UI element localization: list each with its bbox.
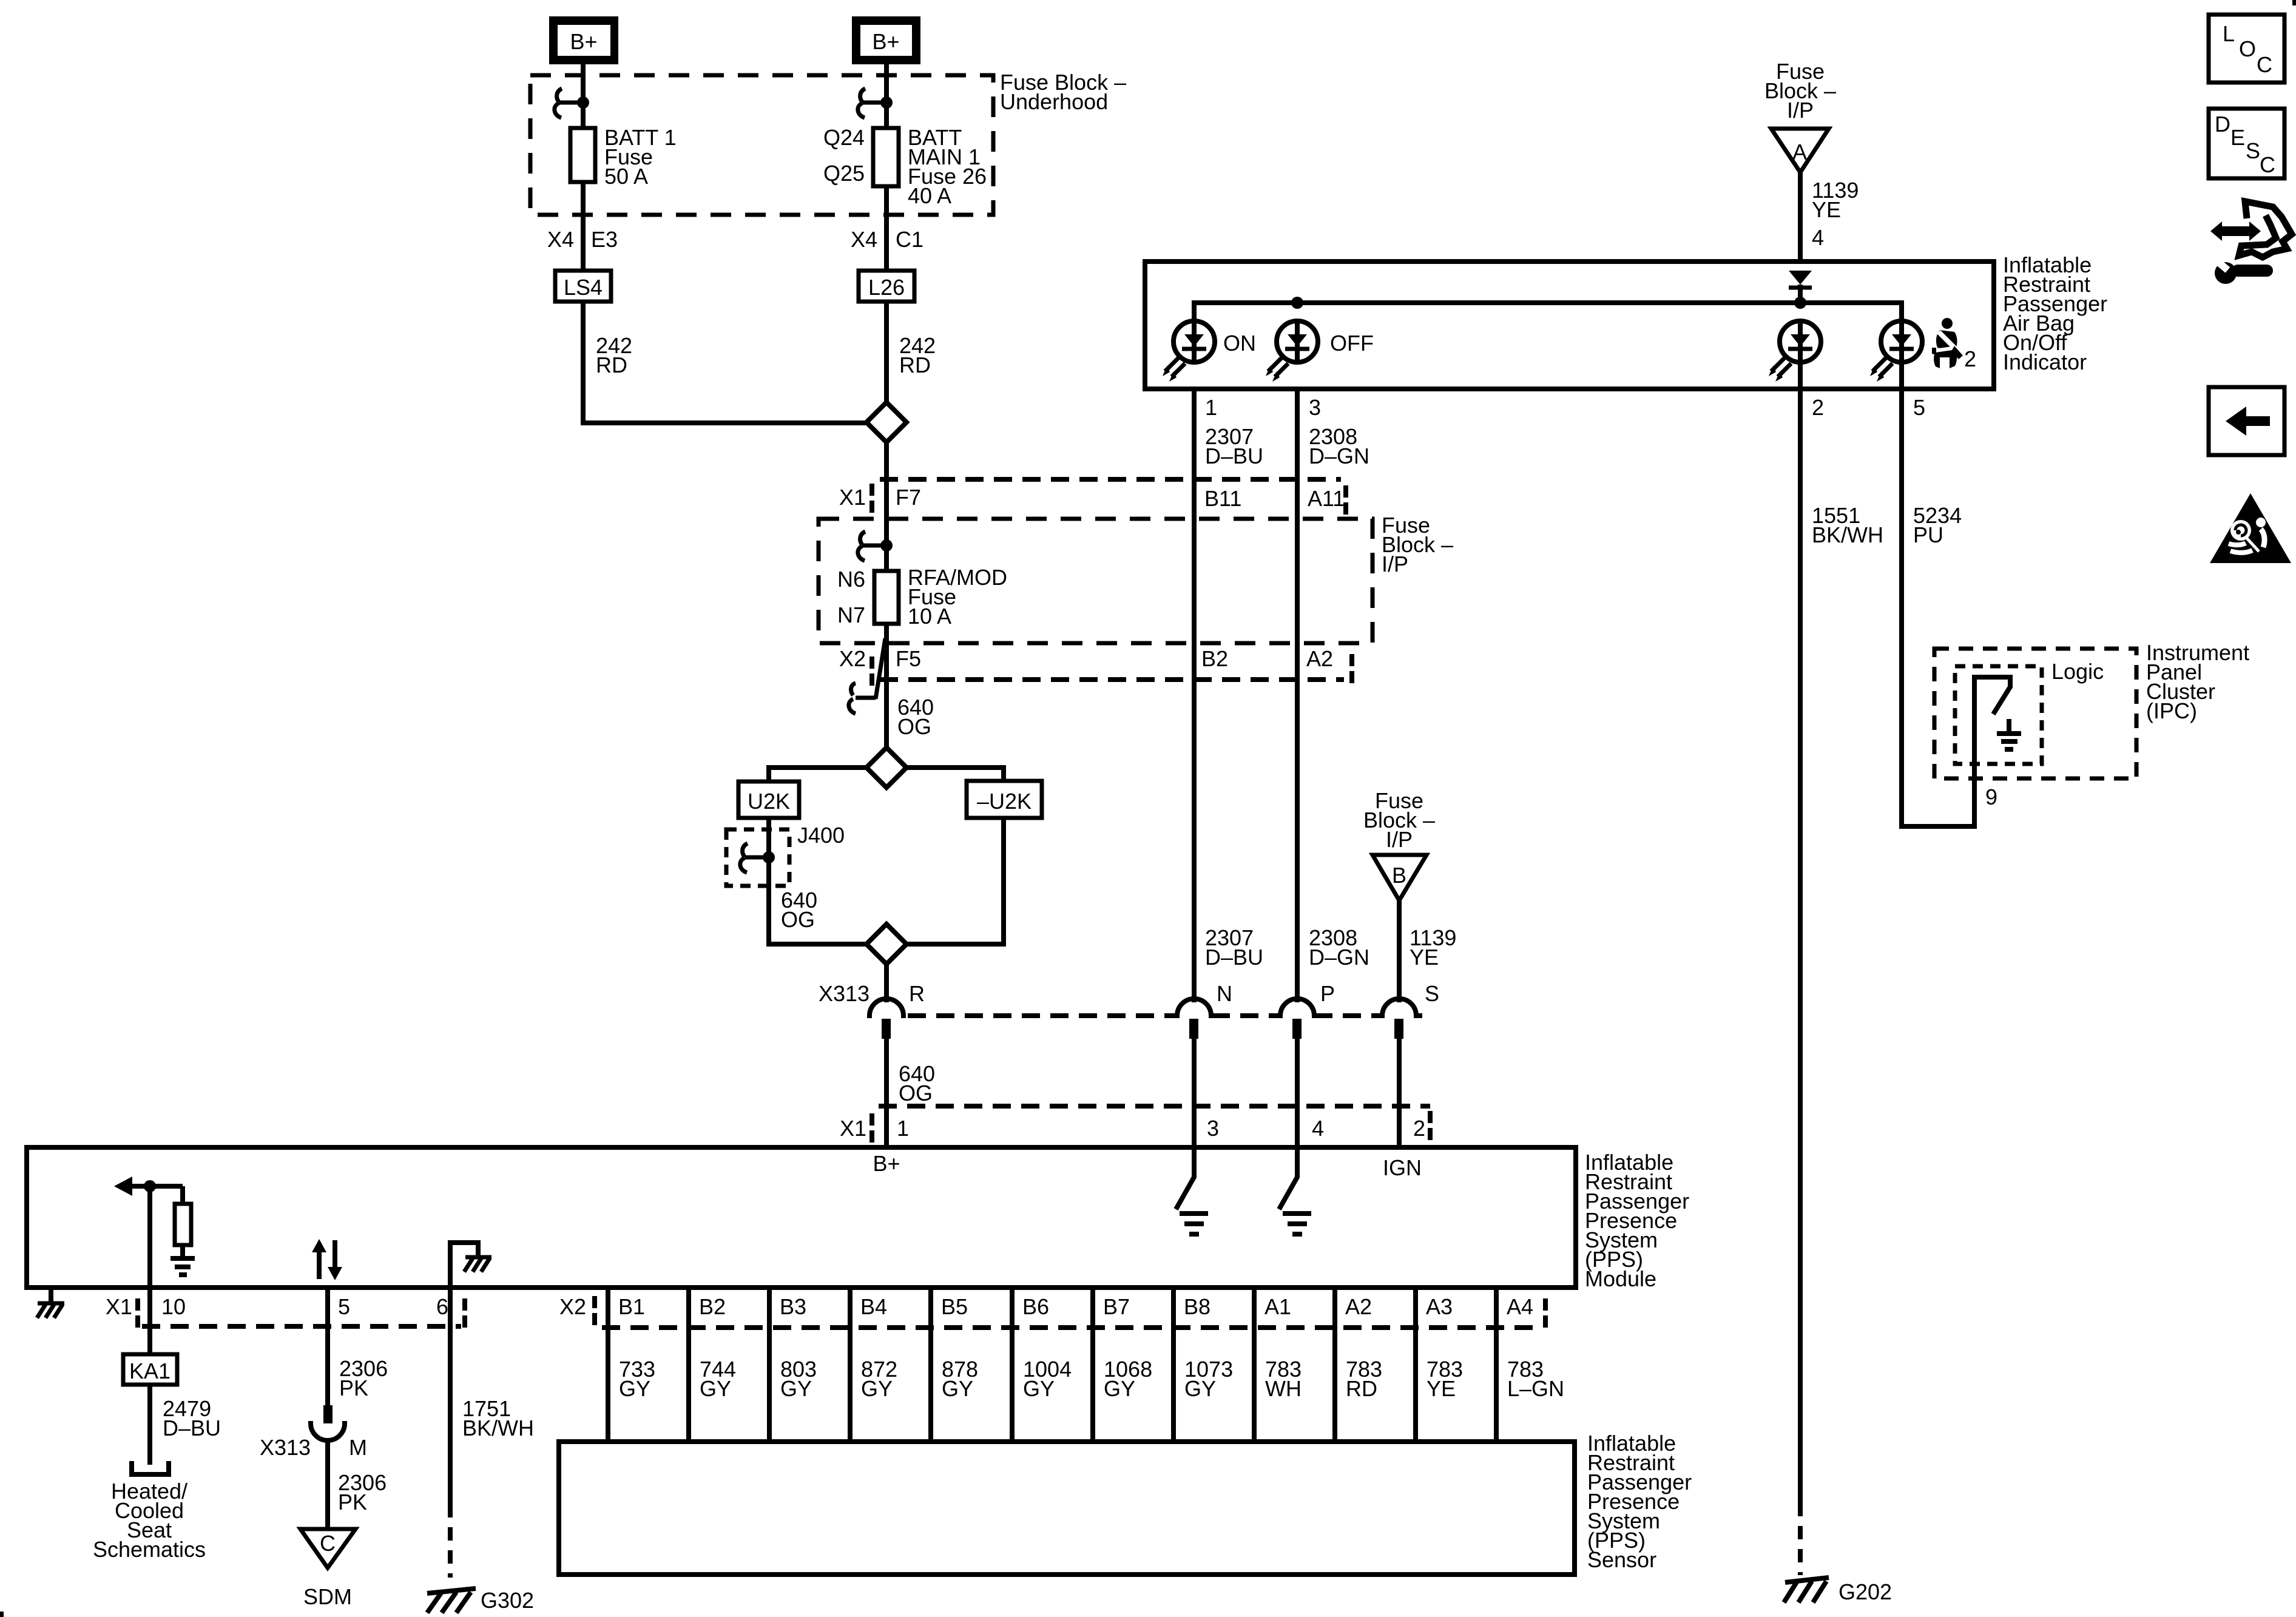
svg-text:N7: N7 [837, 603, 865, 627]
svg-text:YE: YE [1427, 1376, 1456, 1401]
wire 1551 BK/WH [1798, 363, 1803, 1503]
LED lamp 5 [1870, 321, 1922, 382]
svg-text:X2: X2 [839, 646, 866, 671]
module top connector row X1 [879, 1104, 1430, 1109]
svg-text:D: D [2215, 112, 2230, 137]
svg-text:WH: WH [1265, 1376, 1302, 1401]
module internal switch to ground (pin 4) [1279, 1147, 1297, 1209]
connector X313 R (female arc) [869, 999, 903, 1018]
module internal switch to ground (pin 3) [1176, 1147, 1194, 1209]
svg-text:4: 4 [1812, 225, 1824, 250]
off-page bracket [132, 1461, 169, 1474]
svg-text:10: 10 [161, 1294, 186, 1319]
svg-text:GY: GY [1023, 1376, 1055, 1401]
svg-text:B3: B3 [780, 1294, 806, 1319]
svg-text:L26: L26 [868, 275, 905, 300]
IPC logic dashed box [1955, 666, 2042, 764]
option box KA1 [123, 1354, 177, 1385]
svg-text:D–BU: D–BU [1205, 945, 1263, 970]
wire 1068 GY pin B7 [1090, 1290, 1095, 1439]
sidebar service icon double arrow [2210, 221, 2261, 241]
svg-text:F7: F7 [896, 485, 921, 510]
svg-text:R: R [909, 981, 925, 1006]
svg-text:LS4: LS4 [564, 275, 603, 300]
svg-text:GY: GY [619, 1376, 650, 1401]
svg-text:P: P [1320, 981, 1335, 1006]
wire 783 L&#8211;GN pin A4 [1494, 1290, 1499, 1439]
wire 2479 D-BU [147, 1385, 152, 1465]
splice diamond S1 [866, 402, 907, 442]
wire below fuse [884, 624, 889, 748]
LED lamp 2 [1769, 321, 1821, 382]
connector S arc [1382, 999, 1416, 1018]
IPC internal ground [2007, 719, 2011, 732]
LED OFF [1266, 321, 1318, 382]
module internal ground (resistor) [171, 1258, 195, 1275]
wire 1139 YE (B to module pin 2) [1397, 900, 1402, 1002]
page corner marks [2292, 0, 2296, 5]
module case ground stub [49, 1290, 53, 1302]
connector P arc [1280, 999, 1314, 1018]
svg-text:IGN: IGN [1383, 1155, 1422, 1180]
sidebar DESC box [2209, 109, 2284, 178]
connector row X313 dashed [908, 1013, 1177, 1018]
svg-text:GY: GY [1104, 1376, 1135, 1401]
fuse RFA/MOD 10A [874, 571, 899, 624]
fuse block I/P dashed box [819, 519, 1373, 643]
power feed B+ (left) [549, 16, 618, 64]
connector row X1/F7 + B11/A11 (Fuse Block I/P top) [880, 477, 1341, 482]
svg-text:GY: GY [1184, 1376, 1216, 1401]
splice pack LS4 [555, 271, 611, 302]
connector X313 M [323, 1405, 333, 1423]
svg-text:A3: A3 [1426, 1294, 1453, 1319]
wire 242 RD left [583, 302, 866, 423]
wire 783 WH pin A1 [1252, 1290, 1257, 1439]
sidebar service icon wrench [2215, 258, 2273, 284]
svg-text:U2K: U2K [748, 789, 790, 814]
svg-text:M: M [349, 1435, 367, 1460]
svg-text:S: S [2246, 138, 2260, 163]
wire 2307 D-BU (ON LED to module pin 3) [1192, 363, 1197, 1002]
seat belt icon [1932, 318, 1963, 368]
svg-text:B+: B+ [570, 29, 597, 54]
svg-text:B+: B+ [873, 1151, 900, 1176]
connector N arc [1177, 999, 1211, 1018]
svg-text:ON: ON [1223, 331, 1256, 356]
svg-text:OG: OG [899, 1081, 933, 1106]
svg-text:B7: B7 [1103, 1294, 1130, 1319]
svg-text:GY: GY [861, 1376, 893, 1401]
svg-text:G202: G202 [1838, 1579, 1892, 1604]
svg-text:1: 1 [1205, 395, 1217, 420]
svg-text:Underhood: Underhood [1000, 89, 1108, 114]
svg-text:2: 2 [1964, 346, 1976, 371]
wire 1004 GY pin B6 [1010, 1290, 1015, 1439]
wire B+ right drop [884, 64, 889, 271]
wire to X313 R [884, 964, 889, 1002]
SDM reference triangle C [300, 1529, 356, 1568]
svg-text:OFF: OFF [1330, 331, 1374, 356]
svg-text:Logic: Logic [2051, 659, 2104, 684]
fuse block underhood dashed box [530, 75, 993, 215]
svg-text:2: 2 [1413, 1116, 1425, 1141]
svg-text:GY: GY [700, 1376, 731, 1401]
module internal resistor [180, 1186, 185, 1204]
instrument panel cluster dashed box [1934, 649, 2136, 778]
svg-text:Q24: Q24 [823, 125, 865, 150]
svg-text:4: 4 [1312, 1116, 1324, 1141]
svg-text:N: N [1217, 981, 1232, 1006]
wire to -U2K [907, 768, 1004, 781]
svg-text:9: 9 [1985, 785, 1997, 809]
svg-text:A11: A11 [1308, 486, 1345, 511]
wire U2K to J400 [769, 818, 866, 944]
svg-text:SDM: SDM [303, 1584, 352, 1609]
svg-text:A: A [1792, 140, 1807, 164]
svg-text:5: 5 [1913, 395, 1925, 420]
fuse clip (BATT 1 top) [555, 89, 562, 118]
indicator internal bus [1194, 303, 1902, 321]
wire 2306 PK to SDM [325, 1440, 330, 1529]
svg-text:X4: X4 [547, 227, 574, 252]
svg-text:N6: N6 [837, 567, 865, 592]
sidebar back-arrow box [2209, 387, 2284, 455]
svg-text:B1: B1 [618, 1294, 645, 1319]
wire 640 OG below X313 [884, 1039, 889, 1145]
wire 1139 YE from A [1798, 172, 1803, 272]
option box -U2K [967, 781, 1042, 818]
svg-text:YE: YE [1812, 197, 1841, 222]
svg-text:2: 2 [1812, 395, 1824, 420]
svg-text:B: B [1392, 863, 1406, 888]
svg-text:Indicator: Indicator [2003, 349, 2087, 374]
svg-text:GY: GY [780, 1376, 812, 1401]
svg-text:B11: B11 [1204, 486, 1241, 511]
svg-text:I/P: I/P [1382, 552, 1408, 576]
ground G202 [1785, 1578, 1829, 1582]
svg-text:A2: A2 [1345, 1294, 1372, 1319]
wire 744 GY pin B2 [686, 1290, 691, 1439]
svg-text:5: 5 [338, 1294, 350, 1319]
ground G302 [427, 1588, 476, 1593]
fuse clip (RFA/MOD top) [858, 532, 865, 561]
svg-text:Q25: Q25 [823, 161, 865, 186]
splice J400 dashed box [726, 829, 789, 886]
wire 803 GY pin B3 [767, 1290, 772, 1439]
svg-text:–U2K: –U2K [977, 789, 1032, 814]
svg-text:X313: X313 [819, 981, 869, 1006]
splice diamond S2 [866, 748, 907, 788]
svg-text:C: C [320, 1531, 336, 1556]
PPS sensor box [559, 1442, 1575, 1575]
svg-text:6: 6 [436, 1294, 448, 1319]
svg-text:C: C [2260, 152, 2275, 177]
svg-text:X2: X2 [559, 1294, 586, 1319]
svg-text:C: C [2257, 52, 2272, 77]
svg-text:YE: YE [1410, 945, 1439, 970]
svg-text:A2: A2 [1306, 646, 1333, 671]
svg-text:F5: F5 [896, 646, 921, 671]
svg-text:KA1: KA1 [129, 1359, 171, 1383]
svg-text:D–BU: D–BU [163, 1416, 221, 1440]
module internal chassis ground hook (pin 6) [450, 1243, 478, 1288]
svg-text:I/P: I/P [1386, 827, 1413, 852]
svg-text:BK/WH: BK/WH [1812, 522, 1883, 547]
svg-text:D–GN: D–GN [1309, 945, 1369, 970]
fuse BATT 1 [570, 128, 595, 182]
wire 2306 PK (pin 5) [325, 1290, 330, 1406]
diode on pin4 line [1789, 271, 1812, 285]
wire KA1 drop (pin 10) [147, 1186, 152, 1354]
module internal: signal arrow out [114, 1176, 132, 1196]
sidebar service icon panel outline [2239, 201, 2292, 257]
svg-text:L: L [2223, 21, 2235, 46]
svg-text:RD: RD [596, 353, 627, 377]
svg-text:RD: RD [1346, 1376, 1377, 1401]
svg-text:40 A: 40 A [908, 183, 951, 208]
splice diamond S3 [866, 924, 907, 964]
svg-text:50 A: 50 A [604, 164, 648, 189]
wire 733 GY pin B1 [606, 1290, 610, 1439]
svg-text:C1: C1 [896, 227, 923, 252]
svg-text:X1: X1 [839, 485, 866, 510]
wire 5234 PU [1902, 363, 1974, 826]
svg-text:A4: A4 [1507, 1294, 1533, 1319]
wire 872 GY pin B4 [848, 1290, 853, 1439]
svg-text:D–BU: D–BU [1205, 444, 1263, 468]
wire -U2K down [907, 818, 1004, 944]
svg-text:Module: Module [1585, 1266, 1656, 1291]
connector mark X1 [869, 484, 874, 513]
wire 1751 BK/WH (pin 6) [448, 1290, 453, 1504]
svg-text:G302: G302 [481, 1588, 534, 1613]
sidebar LOC box [2209, 15, 2284, 83]
svg-text:10 A: 10 A [908, 604, 951, 629]
svg-text:B2: B2 [699, 1294, 726, 1319]
LED ON [1163, 321, 1215, 382]
wire 2308 D-GN (OFF LED to module pin 4) [1295, 363, 1300, 1002]
connector mark right of A11 [1343, 485, 1348, 515]
option box U2K [738, 781, 799, 818]
svg-text:OG: OG [897, 714, 931, 739]
svg-text:S: S [1425, 981, 1439, 1006]
svg-text:B8: B8 [1184, 1294, 1210, 1319]
svg-text:GY: GY [942, 1376, 973, 1401]
svg-text:I/P: I/P [1787, 98, 1814, 123]
svg-text:B2: B2 [1201, 646, 1228, 671]
svg-text:PU: PU [1913, 522, 1943, 547]
svg-text:A1: A1 [1264, 1294, 1291, 1319]
svg-text:D–GN: D–GN [1309, 444, 1369, 468]
IPC internal switch [1974, 677, 2010, 778]
svg-text:X313: X313 [260, 1435, 311, 1460]
wire B+ left drop [581, 64, 586, 271]
svg-text:X1: X1 [840, 1116, 866, 1141]
module internal bidirectional arrows [317, 1251, 322, 1279]
svg-text:Schematics: Schematics [93, 1537, 206, 1562]
wire 242 RD right [884, 302, 889, 402]
svg-text:J400: J400 [797, 823, 845, 848]
power feed B+ (right) [852, 16, 920, 64]
J400 clip [740, 843, 748, 873]
svg-text:B5: B5 [941, 1294, 968, 1319]
svg-text:RD: RD [899, 353, 931, 377]
svg-text:3: 3 [1309, 395, 1321, 420]
fuse BATT MAIN 1 [873, 128, 899, 186]
svg-text:E3: E3 [591, 227, 618, 252]
fuse clip (BATT MAIN top) [858, 89, 865, 118]
svg-text:X1: X1 [106, 1294, 132, 1319]
svg-text:Sensor: Sensor [1587, 1547, 1656, 1572]
wire 242 RD to F7 [884, 442, 889, 519]
wire to U2K [769, 768, 866, 781]
air bag on/off indicator box [1145, 262, 1994, 389]
svg-text:OG: OG [781, 907, 815, 932]
wire inside fuse block [884, 519, 889, 571]
fuse clip (RFA/MOD bottom, pull-out blade) [876, 638, 885, 699]
wire 878 GY pin B5 [928, 1290, 933, 1439]
PPS module box [27, 1147, 1576, 1288]
svg-text:B+: B+ [872, 29, 899, 54]
splice pack L26 [859, 271, 914, 302]
wire 1073 GY pin B8 [1171, 1290, 1176, 1439]
svg-text:PK: PK [338, 1490, 367, 1514]
sidebar caution triangle (child seat) [2210, 493, 2291, 563]
wire 783 YE pin A3 [1413, 1290, 1418, 1439]
svg-text:3: 3 [1207, 1116, 1219, 1141]
svg-text:(IPC): (IPC) [2146, 698, 2197, 723]
svg-text:O: O [2239, 36, 2256, 61]
svg-text:L–GN: L–GN [1507, 1376, 1564, 1401]
svg-text:E: E [2230, 125, 2245, 150]
svg-text:B6: B6 [1022, 1294, 1049, 1319]
svg-text:1: 1 [897, 1116, 909, 1141]
wire 783 RD pin A2 [1332, 1290, 1337, 1439]
svg-text:PK: PK [339, 1376, 368, 1400]
svg-text:B4: B4 [860, 1294, 887, 1319]
svg-text:X4: X4 [851, 227, 877, 252]
svg-text:BK/WH: BK/WH [462, 1416, 534, 1440]
